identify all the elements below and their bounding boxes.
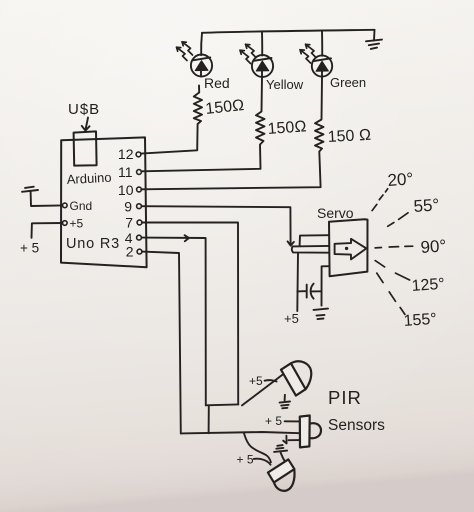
- svg-text:+5: +5: [249, 374, 263, 388]
- svg-text:2: 2: [126, 244, 134, 260]
- svg-text:Uno R3: Uno R3: [66, 236, 120, 252]
- svg-text:Arduino: Arduino: [66, 170, 112, 187]
- svg-text:11: 11: [118, 164, 133, 180]
- svg-text:125°: 125°: [411, 276, 445, 295]
- svg-text:PIR: PIR: [328, 387, 362, 408]
- svg-text:55°: 55°: [413, 195, 440, 216]
- svg-text:20°: 20°: [387, 169, 414, 190]
- svg-text:+5: +5: [284, 311, 299, 326]
- svg-text:10: 10: [118, 182, 134, 198]
- svg-text:155°: 155°: [403, 311, 437, 330]
- svg-text:7: 7: [125, 215, 133, 231]
- svg-text:Servo: Servo: [317, 205, 354, 221]
- svg-text:+ 5: + 5: [265, 414, 282, 428]
- svg-text:9: 9: [124, 199, 132, 215]
- svg-text:150 Ω: 150 Ω: [327, 127, 371, 146]
- svg-text:Yellow: Yellow: [266, 77, 304, 92]
- svg-text:150Ω: 150Ω: [267, 118, 307, 138]
- svg-text:12: 12: [118, 146, 134, 162]
- svg-text:+ 5: + 5: [20, 241, 39, 256]
- svg-text:+ 5: + 5: [237, 453, 254, 467]
- svg-text:Gnd: Gnd: [70, 199, 93, 213]
- svg-text:90°: 90°: [420, 236, 447, 257]
- svg-text:Sensors: Sensors: [328, 417, 385, 434]
- svg-text:Green: Green: [330, 75, 366, 90]
- svg-text:+5: +5: [70, 217, 84, 231]
- svg-text:U$B: U$B: [68, 101, 100, 118]
- svg-text:Red: Red: [204, 75, 230, 91]
